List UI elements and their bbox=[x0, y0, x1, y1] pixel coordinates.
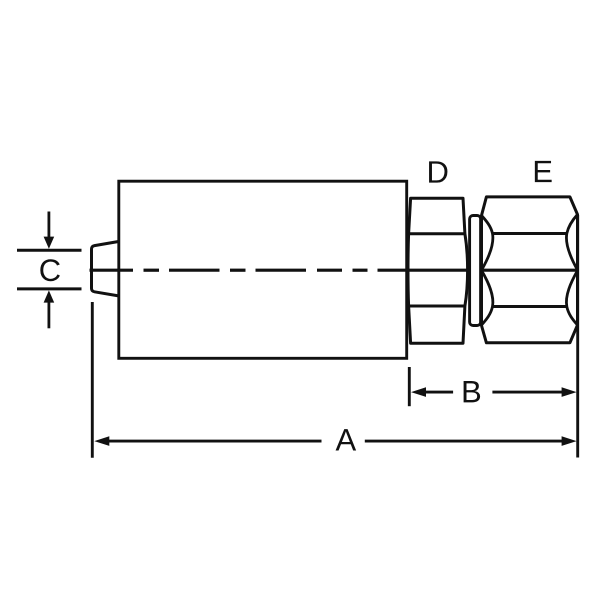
hex E lower flat line bbox=[493, 305, 567, 308]
hose nipple tail (left stem) bbox=[92, 242, 119, 296]
hex E right chamfer arc lower bbox=[566, 271, 577, 325]
centerline (axis) bbox=[90, 269, 577, 272]
ferrule shell rectangle bbox=[119, 181, 407, 358]
dimension C lower extension line bbox=[17, 287, 82, 290]
dimension C upper arrow bbox=[44, 212, 55, 249]
label B bbox=[464, 381, 481, 402]
dimension C upper extension line bbox=[17, 249, 82, 252]
collar between hexes bbox=[470, 216, 481, 326]
dimension B line with arrows bbox=[411, 387, 577, 397]
hex E body bbox=[482, 197, 578, 343]
label D bbox=[429, 161, 447, 182]
hex E upper flat line bbox=[493, 232, 567, 235]
hex D body bbox=[408, 198, 468, 343]
hex E right chamfer arc upper bbox=[566, 215, 577, 270]
hex D upper flat line bbox=[409, 232, 465, 235]
right extension / end-face line bbox=[576, 215, 579, 458]
hex E left chamfer arc upper bbox=[482, 216, 493, 270]
dimension A line with arrows bbox=[94, 436, 576, 446]
dimension B left extension line bbox=[408, 367, 411, 406]
label E bbox=[535, 161, 552, 182]
label C bbox=[40, 259, 60, 281]
dimension C lower arrow bbox=[44, 290, 55, 328]
label A bbox=[336, 429, 357, 450]
dimension A left extension line bbox=[91, 302, 94, 458]
hex E left chamfer arc lower bbox=[482, 271, 493, 325]
hex D lower flat line bbox=[409, 305, 465, 308]
